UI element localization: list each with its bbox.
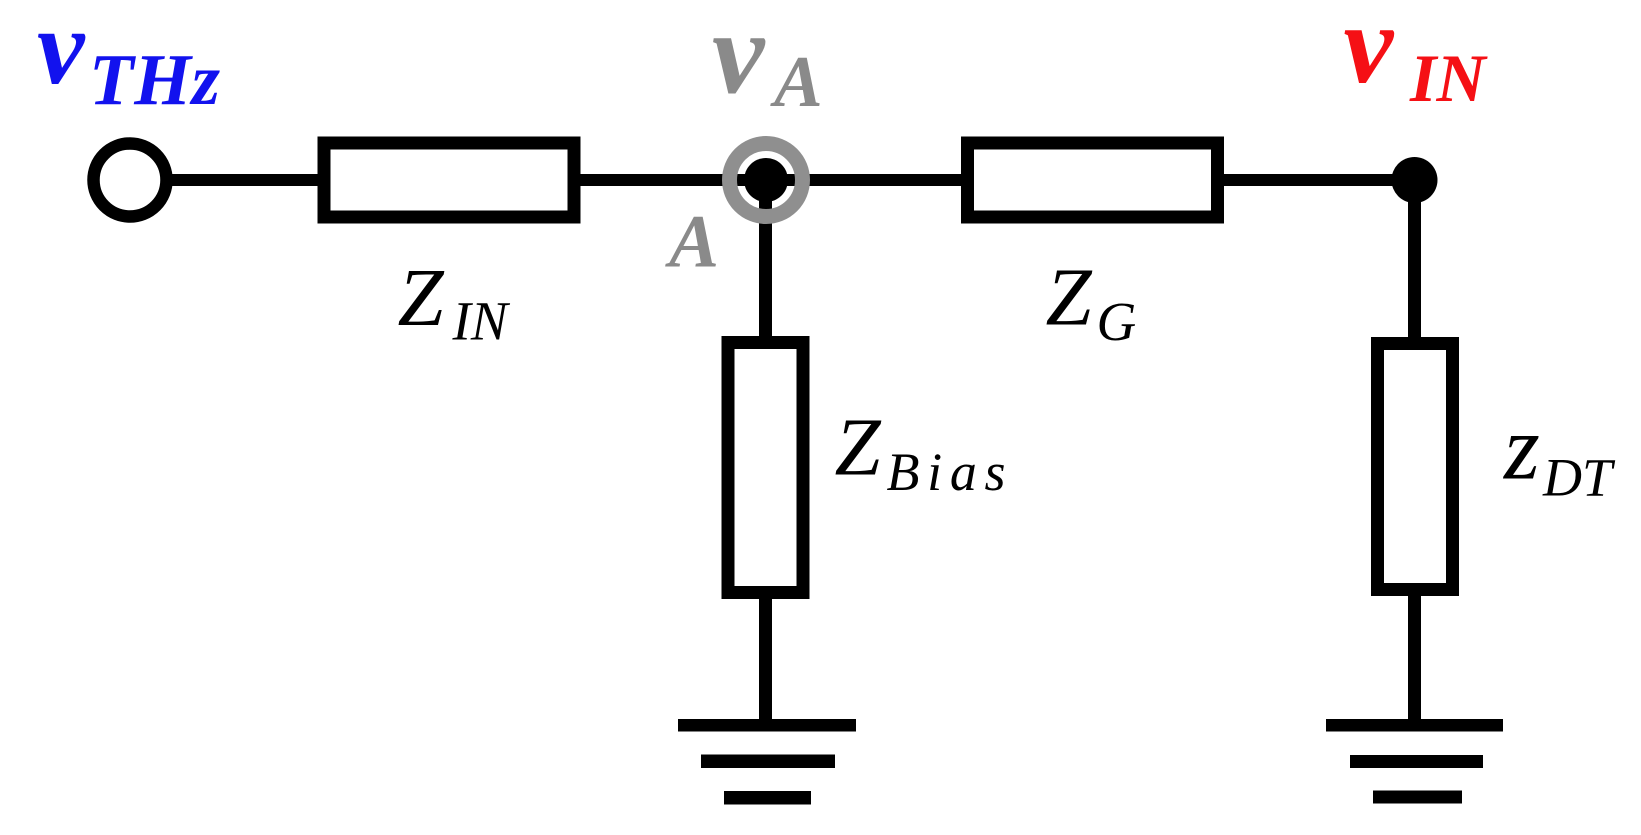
resistor Z_IN — [324, 143, 574, 217]
junction dot v_IN — [1392, 157, 1438, 203]
wire: terminal to Z_IN — [168, 174, 322, 186]
junction dot node A — [744, 158, 788, 202]
resistor z_DT — [1378, 344, 1453, 590]
ground (left) bar 1 — [678, 719, 856, 732]
wire: node A down to Z_Bias — [759, 180, 772, 340]
svg-text:z: z — [1502, 397, 1540, 499]
svg-text:THz: THz — [89, 39, 221, 120]
svg-text:Bias: Bias — [887, 442, 1006, 502]
svg-text:A: A — [665, 201, 719, 284]
svg-text:IN: IN — [452, 291, 511, 352]
ground (left) bar 2 — [701, 755, 835, 769]
svg-text:v: v — [1344, 0, 1395, 107]
wire: Z_IN to node A — [579, 174, 766, 186]
terminal v_THz — [94, 144, 167, 217]
svg-text:DT: DT — [1542, 448, 1616, 508]
ground (right) bar 3 — [1373, 791, 1462, 804]
svg-text:Z: Z — [1046, 251, 1093, 343]
wire: node v_IN down to z_DT — [1408, 180, 1421, 340]
resistor Z_G — [968, 143, 1218, 217]
svg-text:Z: Z — [835, 401, 882, 493]
ground (left) bar 3 — [724, 791, 811, 805]
ground (right) bar 1 — [1326, 719, 1503, 732]
svg-text:IN: IN — [1409, 40, 1488, 116]
ground (right) bar 2 — [1350, 755, 1483, 768]
svg-text:A: A — [770, 41, 823, 122]
node A gray ring — [730, 144, 803, 217]
wire: node A to Z_G — [766, 174, 965, 186]
resistor Z_Bias — [728, 343, 803, 593]
svg-text:Z: Z — [398, 251, 445, 343]
wire: Z_Bias to ground — [759, 596, 772, 725]
wire: Z_G to node v_IN — [1221, 174, 1414, 186]
wire: z_DT to ground — [1408, 593, 1421, 725]
svg-text:G: G — [1097, 291, 1137, 352]
svg-text:v: v — [712, 0, 766, 119]
svg-text:v: v — [37, 0, 86, 107]
